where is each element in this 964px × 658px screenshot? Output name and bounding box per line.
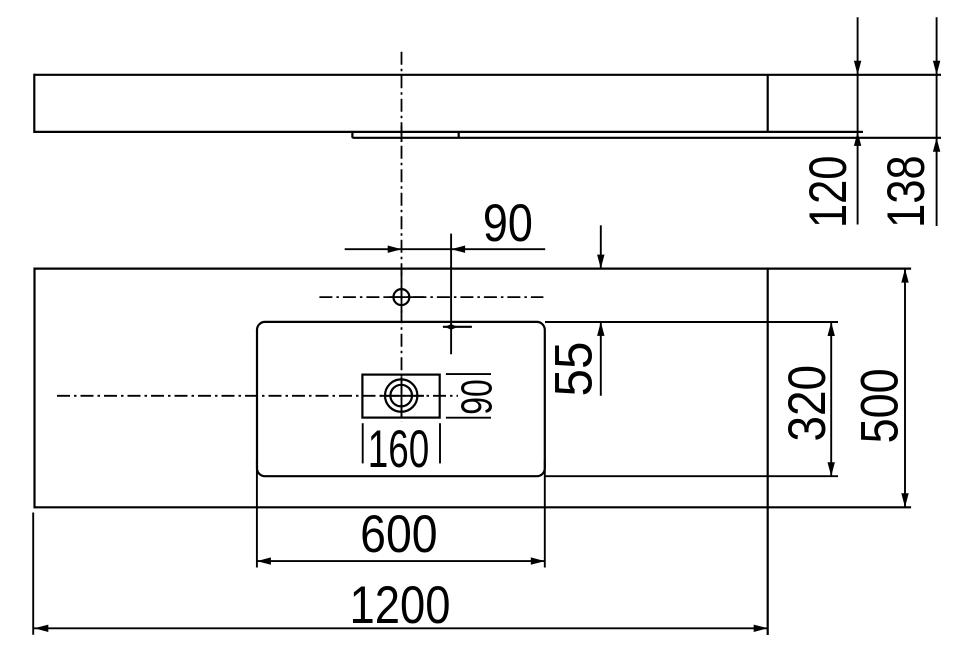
svg-text:90: 90 <box>453 379 502 415</box>
svg-text:160: 160 <box>368 420 430 479</box>
svg-text:320: 320 <box>778 365 837 442</box>
svg-text:120: 120 <box>799 156 858 229</box>
svg-text:500: 500 <box>850 368 909 443</box>
svg-text:600: 600 <box>360 505 438 564</box>
svg-text:90: 90 <box>483 194 533 253</box>
svg-text:1200: 1200 <box>350 576 451 635</box>
svg-text:138: 138 <box>877 155 936 228</box>
svg-text:55: 55 <box>545 342 604 397</box>
